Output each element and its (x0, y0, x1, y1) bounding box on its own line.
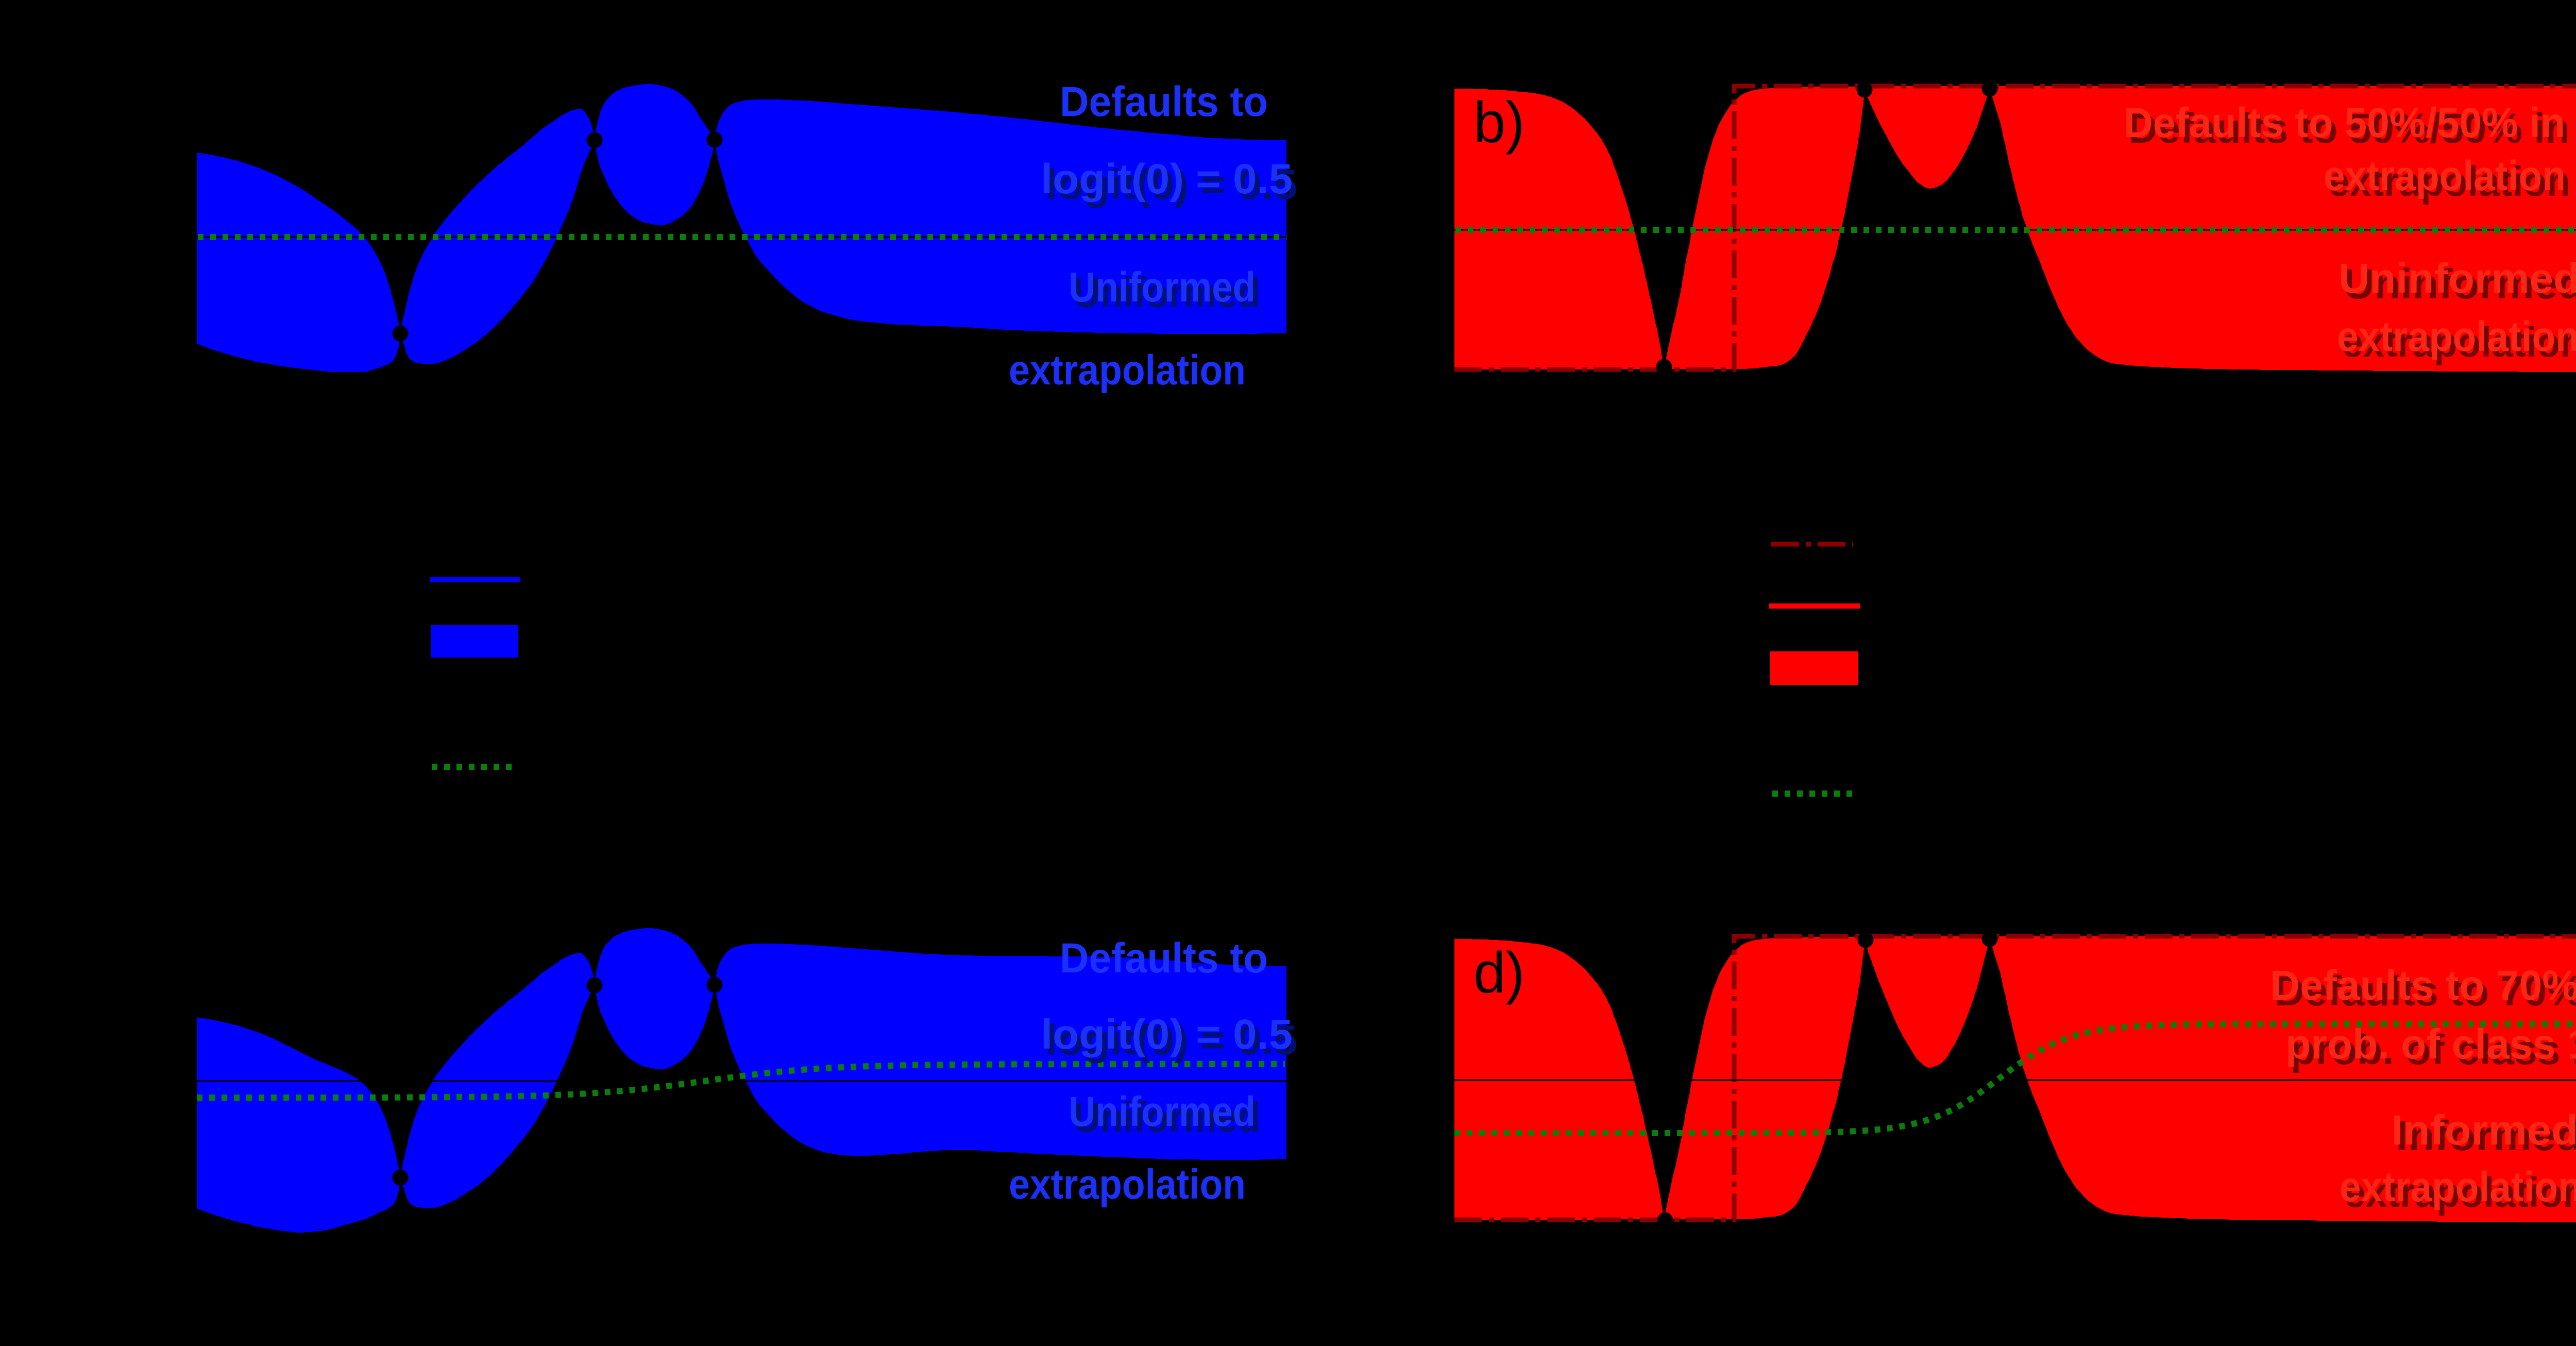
svg-text:extrapolation: extrapolation (1009, 347, 1246, 394)
panel d: green dotted informed prior probability sigmoid (1454, 1024, 2576, 1133)
panel c: data point dot 3 (707, 977, 723, 993)
svg-text:extrapolation: extrapolation (2324, 153, 2566, 199)
svg-text:logit(0) = 0.5: logit(0) = 0.5 (1041, 156, 1293, 203)
svg-text:d): d) (1473, 940, 1525, 1005)
svg-text:extrapolation: extrapolation (2337, 313, 2576, 360)
panel b: data point dot 2 (1857, 82, 1873, 98)
svg-text:extrapolation: extrapolation (1009, 1161, 1246, 1208)
svg-text:Uniformed: Uniformed (1069, 1088, 1256, 1135)
panel a: data point dot 3 (707, 132, 723, 148)
svg-text:b): b) (1473, 90, 1525, 155)
panel d: black 50% reference line (1454, 1080, 2576, 1081)
svg-text:Defaults to: Defaults to (1060, 78, 1268, 125)
left legend: blue mean-line key (430, 577, 520, 582)
panel c: data point dot 1 (393, 1170, 409, 1186)
svg-text:Uninformed: Uninformed (2338, 255, 2576, 302)
panel c: data point dot 2 (587, 978, 603, 994)
svg-text:Uniformed: Uniformed (1069, 264, 1256, 311)
panel c: green dotted informed prior-mean sigmoid (197, 1064, 1285, 1098)
panel a: green dotted prior-mean line (198, 234, 1286, 240)
left legend: green dotted prior key (432, 764, 513, 770)
panel b: black 50% reference line (1454, 229, 2576, 231)
panel a: data point dot 2 (587, 132, 603, 148)
panel b: green dotted prior probability line (1455, 227, 2576, 233)
svg-text:Defaults to 70%: Defaults to 70% (2270, 962, 2576, 1009)
panel c: black zero reference line (197, 1081, 1286, 1082)
left legend: blue uncertainty patch key (431, 625, 518, 658)
right legend: red mean-line key (1769, 603, 1860, 609)
panel a: data point dot 1 (393, 326, 409, 342)
panel c: latent GP band with informed prior (blue) (197, 928, 1286, 1233)
panel b: dark red dash-dot true step function (1454, 86, 2576, 369)
panel a: latent GP uncertainty band (blue) (197, 84, 1286, 372)
right legend: dark red dash-dot step key (1771, 542, 1853, 547)
svg-text:prob. of class 1: prob. of class 1 (2285, 1021, 2576, 1068)
svg-text:Defaults to: Defaults to (1060, 935, 1268, 982)
panel b: data point dot 3 (1982, 81, 1998, 97)
svg-text:Informed: Informed (2391, 1107, 2576, 1154)
panel a: black zero reference line (197, 237, 1286, 238)
panel b: data point dot 1 (1656, 359, 1672, 375)
right legend: red uncertainty patch key (1770, 651, 1858, 685)
svg-text:extrapolation: extrapolation (2340, 1164, 2576, 1210)
panel d: probability band with informed prior (red) (1454, 936, 2576, 1222)
right legend: green dotted prior key (1772, 790, 1854, 797)
panel b: probability uncertainty band (red) (1454, 86, 2576, 372)
panel d: data point dot 2 (1858, 932, 1874, 948)
svg-text:Defaults to 50%/50% in: Defaults to 50%/50% in (2124, 99, 2565, 146)
svg-text:logit(0) = 0.5: logit(0) = 0.5 (1041, 1011, 1293, 1058)
panel d: dark red dash-dot true step function (1454, 936, 2576, 1220)
panel d: data point dot 1 (1657, 1213, 1673, 1229)
panel d: data point dot 3 (1982, 931, 1998, 947)
